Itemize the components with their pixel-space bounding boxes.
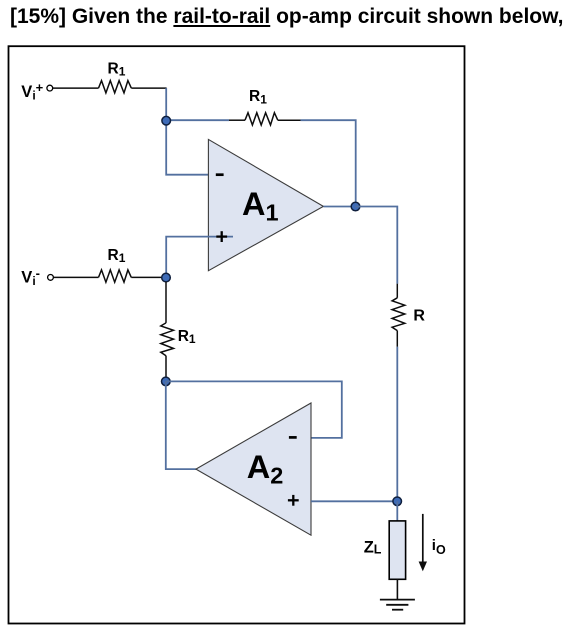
label R1 (top-left resistor) [108,60,126,78]
svg-text:R1: R1 [178,328,196,346]
node A (junction dot) [162,116,171,125]
terminal Vi+ [47,85,53,91]
wire node D to inverting input of A2 [166,381,342,438]
wire node C down to resistor R1 vertical [165,282,167,323]
svg-text:R: R [413,308,425,325]
wire R1 to node C [131,276,165,278]
pin plus of A1 [216,231,227,242]
resistor R1 (feedback, horizontal) [229,113,301,125]
svg-text:R1: R1 [108,60,126,78]
op-amp A1 [208,139,323,270]
op-amp A2 [196,403,311,535]
title text [10,5,564,29]
wire resistor R1 vertical down to node D [165,356,167,378]
wire Vi+ input lead [53,87,99,89]
wire corner down to node A [165,88,167,121]
wire node A to feedback resistor [166,119,229,121]
node output of A1 [351,202,360,211]
node C (junction dot) [162,273,171,282]
pin minus of A2 [289,436,297,439]
node D (junction dot) [162,377,171,386]
label R1 (Vi- row resistor) [108,247,126,265]
svg-text:R1: R1 [249,88,267,106]
resistor R1 (vertical) [161,323,174,356]
load ZL [389,521,405,579]
wire node A down to inverting input of A1 [166,121,208,175]
node B (junction dot) [393,497,402,506]
terminal Vi- [48,275,54,281]
label A1 [242,186,279,226]
label A2 [247,449,284,489]
ground [380,600,415,610]
wire node B down to load ZL [396,501,398,521]
label R1 (feedback resistor) [249,88,267,106]
wire A1 plus input [166,237,233,278]
pin plus of A2 [288,495,299,506]
wire node D down to output of A2 [166,381,196,469]
label R [413,308,425,325]
resistor R1 (Vi- row, horizontal) [99,270,132,282]
wire feedback resistor to output node [301,120,356,206]
current arrow io [419,514,427,571]
wire A1 output to output node [323,206,355,208]
svg-text:Vi+: Vi+ [21,80,43,103]
frame border [9,46,465,623]
label Vi+ [21,80,43,103]
wire R1 to corner [131,87,166,89]
svg-text:ZL: ZL [364,539,382,557]
resistor R (vertical) [392,284,405,347]
label io [432,537,446,557]
label Vi- [21,265,40,288]
svg-text:R1: R1 [108,247,126,265]
wire ZL to ground [396,579,398,599]
wire A2 plus input to node B [311,500,397,502]
label ZL [364,539,382,557]
pin minus of A1 [216,173,224,176]
wire resistor R down to node B [396,347,398,502]
wire output node to resistor R [356,207,398,284]
label R1 (vertical resistor) [178,328,196,346]
svg-text:iO: iO [432,537,446,557]
wire Vi- input lead [54,276,99,278]
resistor R1 (top-left, horizontal) [99,81,132,93]
svg-text:Vi-: Vi- [21,265,40,288]
